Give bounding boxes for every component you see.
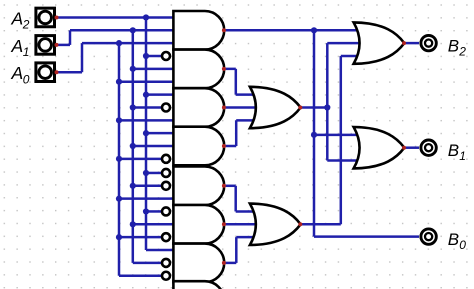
node junction A2 rail gate U6 (143, 208, 149, 214)
net A0 (57, 40, 176, 276)
node U4 output dot (222, 144, 226, 148)
node junction A2 rail gate U3 (143, 92, 149, 98)
wires gate U3 input stubs (116, 92, 175, 124)
wire OR1 to OR-B2 in2 (327, 42, 360, 45)
node A1 top junction (130, 27, 136, 33)
wire A2 horizontal from pin to rail (57, 16, 147, 19)
wire stub A0 to gate U3 input 3 (119, 119, 175, 122)
inverter bubble U6 input 3 (162, 233, 170, 241)
inverter bubble U2 input 1 (162, 52, 170, 60)
net U5 output (224, 186, 256, 212)
svg-text:A: A (11, 63, 24, 83)
svg-text:A: A (11, 36, 24, 56)
wire stub A2 to gate U7 input 1 (146, 249, 175, 252)
node A2 top junction (143, 14, 149, 20)
node U5 output dot (222, 184, 226, 188)
node junction A2 rail gate U5 (143, 170, 149, 176)
node junction A1 rail gate U4 (130, 143, 136, 149)
net U1 output (AND all ones) (224, 27, 420, 236)
inverter bubble U5 input 2 (162, 182, 170, 190)
wire OR-B1 output to pin B1 (404, 146, 419, 149)
wire OR2 vertical up x=341 (340, 56, 343, 224)
wire OR2 to OR-B2 in3 (341, 55, 358, 58)
wire stub A2 to gate U3 input 1 (146, 93, 175, 96)
wire U7 output horizontal (224, 262, 237, 265)
wire A0 vertical rail (118, 43, 121, 276)
wire OR1 to OR-B1 in2 (327, 159, 358, 162)
node junction A1 rail gate U3 (130, 104, 136, 110)
wire U4 output horizontal (224, 145, 237, 148)
wire stub A0 to gate U2 input 3 (119, 80, 175, 83)
node junction A1 rail gate U5 (130, 183, 136, 189)
net A2 (57, 14, 176, 250)
wire U7 vertical jog up (235, 237, 238, 263)
node junction A0 rail gate U3 (116, 117, 122, 123)
wires gate U5 input stubs (116, 170, 175, 202)
wire A2 vertical rail (145, 17, 148, 250)
wire U2 to OR1 in1 (236, 93, 255, 96)
inverter bubble U7 input 2 (162, 259, 170, 267)
net U7 output (224, 237, 256, 263)
node U7 output dot (222, 261, 226, 265)
node U2 output dot (222, 67, 226, 71)
net U4 output (224, 120, 256, 146)
wire A0 horizontal from pin (57, 71, 83, 74)
svg-text:1: 1 (459, 149, 466, 163)
wire U1 output to OR-B2 in1 (224, 29, 359, 32)
node junction A1 rail gate U6 (130, 221, 136, 227)
node OR2 output dot (298, 222, 302, 226)
node junction A0 rail gate U5 (116, 196, 122, 202)
node junction A0 rail gate U6 (116, 234, 122, 240)
inverter bubble U5 input 1 (162, 169, 170, 177)
input pin A1 (36, 36, 55, 55)
inverter bubble U6 input 1 (162, 207, 170, 215)
node junction A2 rail gate U2 (143, 53, 149, 59)
svg-text:B: B (448, 141, 459, 160)
wire A1 vertical rail (132, 30, 135, 263)
svg-text:2: 2 (458, 45, 466, 59)
wires gate U7 input stubs (119, 250, 175, 276)
output pin B1 (421, 140, 436, 155)
net OR1 output (exactly two) (300, 43, 360, 160)
node OR-B1 output dot (402, 146, 406, 150)
svg-text:0: 0 (459, 238, 466, 252)
wire A1 vertical jog up (69, 30, 72, 45)
net OR2 output (exactly one) (300, 56, 358, 224)
inverter bubble U4 input 3 (162, 155, 170, 163)
net U2 output (224, 69, 256, 95)
wire stub A0 to gate U6 input 3 (119, 236, 162, 239)
wires gate U4 input stubs (116, 130, 175, 162)
inverter bubble U3 input 2 (162, 104, 170, 112)
wire stub A0 to gate U4 input 3 (119, 158, 162, 161)
and-gate U3 (173, 88, 224, 127)
node U1 output dot (222, 28, 226, 32)
wire U5 to OR2 in1 (236, 210, 255, 213)
net U6 output to OR2 in2 (224, 223, 259, 226)
node U6 output dot (222, 222, 226, 226)
node junction A2 rail gate U4 (143, 130, 149, 136)
wire OR1 vertical x=327 (326, 43, 329, 160)
svg-text:1: 1 (23, 45, 30, 59)
wire stub A2 to gate U6 input 1 (146, 210, 162, 213)
net U3 output to OR1 in2 (224, 106, 259, 109)
wire A2 rail horizontal to gate U1 in1 (146, 16, 175, 19)
wire stub A1 to gate U7 input 2 (133, 262, 162, 265)
svg-text:B: B (448, 230, 459, 249)
wire stub A0 to gate U7 input 3 (119, 275, 162, 278)
wire stub A2 to gate U2 input 1 (146, 55, 162, 58)
svg-text:A: A (11, 8, 24, 28)
wire stub A1 to gate U4 input 2 (133, 145, 175, 148)
wire U5 vertical jog down (234, 186, 237, 212)
node OR1 output dot (298, 106, 302, 110)
output pin B0 (421, 229, 436, 244)
node pin A1 connection dot (55, 43, 59, 47)
input pin A2 (36, 8, 55, 27)
wire A0 vertical jog up (81, 43, 84, 72)
node U3 output dot (222, 106, 226, 110)
wire stub A1 to gate U6 input 2 (133, 223, 175, 226)
or-gate OR-B2 (top right) (354, 22, 405, 63)
wire stub A2 to gate U5 input 1 (146, 172, 162, 175)
svg-text:2: 2 (22, 18, 30, 32)
inverter bubble U7 input 3 (162, 272, 170, 280)
svg-text:B: B (448, 36, 459, 55)
node junction A0 rail gate U4 (116, 156, 122, 162)
node junction A1 rail gate U2 (130, 66, 136, 72)
wire U2 vertical jog down (235, 69, 238, 95)
wire OR2 output horizontal (300, 223, 341, 226)
wire U4 vertical jog up (235, 120, 238, 146)
net A1 (57, 27, 176, 263)
or-gate OR1 (middle upper) (250, 87, 301, 128)
node junction U1 out tap (311, 27, 317, 33)
wire U1 vertical down x=314 (313, 30, 316, 236)
node junction U1 to OR-B1 in1 (311, 132, 317, 138)
wire stub A0 to gate U5 input 3 (119, 197, 175, 200)
wire stub A1 to gate U3 input 2 (133, 106, 162, 109)
wire U2 output horizontal (224, 68, 236, 71)
node OR-B2 output dot (402, 41, 406, 45)
and-gate U5 (173, 167, 224, 206)
node pin A0 connection dot (55, 70, 59, 74)
wire stub A2 to gate U4 input 1 (146, 132, 175, 135)
svg-text:0: 0 (23, 72, 30, 86)
wire OR-B2 output to pin B2 (404, 42, 419, 45)
input pin A0 (36, 63, 55, 82)
and-gate U4 (173, 127, 224, 166)
and-gate U7 (173, 244, 224, 283)
wire U1 to output B0 horizontal (314, 235, 419, 238)
wire A1 horizontal from pin (57, 44, 71, 47)
wire U7 to OR2 in3 (236, 236, 255, 239)
wire stub A1 to gate U2 input 2 (133, 68, 175, 71)
or-gate OR2 (middle lower) (250, 204, 301, 245)
wires gate U2 input stubs (116, 53, 175, 85)
wire U1 to OR-B1 in1 horizontal (314, 134, 358, 137)
node A0 top junction (116, 40, 122, 46)
node pin A2 connection dot (55, 15, 59, 19)
wire stub A1 to gate U5 input 2 (133, 185, 162, 188)
wire A0 horizontal to gate U1 in3 (82, 42, 175, 45)
and-gate U8 (173, 281, 224, 289)
wires gate U6 input stubs (116, 208, 175, 240)
output pin B2 (421, 35, 436, 50)
wire U4 to OR1 in3 (236, 119, 255, 122)
and-gate U2 (173, 50, 224, 89)
and-gate U1 (173, 11, 224, 50)
wire U5 output horizontal (224, 185, 236, 188)
or-gate OR-B1 (right) (354, 127, 405, 168)
wire OR1 output horizontal (300, 106, 327, 109)
node junction OR1 out (324, 104, 330, 110)
and-gate U6 (173, 205, 224, 244)
wire A1 horizontal to gate U1 in2 (70, 29, 175, 32)
node junction A0 rail gate U2 (116, 79, 122, 85)
